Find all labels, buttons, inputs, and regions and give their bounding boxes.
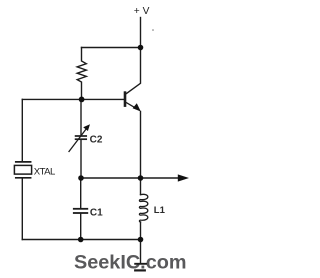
svg-text:+ V: + V	[134, 6, 150, 17]
svg-text:C1: C1	[90, 207, 103, 218]
svg-text:SeekIC.com: SeekIC.com	[74, 253, 187, 274]
svg-text:XTAL: XTAL	[34, 166, 56, 177]
svg-text:L1: L1	[154, 205, 166, 216]
svg-text:C2: C2	[90, 135, 103, 146]
